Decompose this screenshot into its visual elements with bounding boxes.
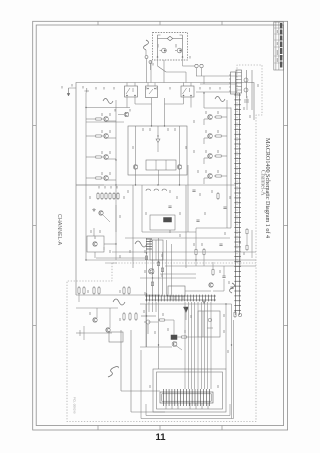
wire Q2 base feed: [86, 135, 94, 137]
wire Q4 collector: [108, 179, 116, 181]
transistor Q3: [104, 155, 109, 160]
dashed outline output device board: [237, 65, 262, 263]
board interconnect pin strip CN2 vertical: [234, 93, 241, 315]
wire K3 stubs: [147, 83, 149, 87]
capacitor C3: [222, 275, 225, 277]
label output board: [243, 107, 245, 110]
wires into CN2: [196, 75, 237, 77]
arrow stub: [75, 332, 77, 334]
wire Q6 leads: [223, 135, 227, 137]
wire bias rail: [86, 107, 130, 109]
wire input mesh: [140, 304, 232, 350]
resistor R1: [94, 118, 96, 120]
label marks lower right: [193, 243, 195, 246]
dark component U3: [171, 335, 177, 340]
svg-text:PCL-2082-B: PCL-2082-B: [73, 397, 77, 414]
ground G2: [203, 300, 205, 302]
relay driver box K1: [125, 86, 138, 97]
wire header stubs down: [166, 403, 208, 409]
wire Q4 base feed: [86, 177, 94, 179]
resistor R41: [180, 336, 182, 338]
transistor Q6: [208, 134, 213, 139]
wire Q3 collector: [108, 158, 116, 160]
main amplifier enclosure box: [76, 83, 254, 296]
wire mid bus 3: [125, 237, 230, 239]
transistor Q8: [208, 174, 213, 179]
dashed outline relay block: [153, 33, 188, 61]
relay RL1 frame right: [182, 35, 184, 57]
wire protection mesh: [76, 295, 118, 340]
wire Q15: [118, 114, 124, 116]
resistor R32: [212, 268, 214, 270]
transistor Q2: [104, 134, 109, 139]
bias cluster components: [109, 330, 165, 412]
resistor R3: [94, 156, 96, 158]
squiggle wave mark 1: [135, 241, 147, 247]
wire output feed across: [115, 205, 117, 260]
resistor R2: [94, 135, 96, 137]
squiggle wave mark 4: [230, 283, 235, 293]
transistor Q16 vas: [149, 269, 154, 274]
wire feedback: [141, 185, 143, 232]
junction dots vas: [146, 252, 147, 253]
resistor R8: [214, 175, 216, 177]
wire bias network: [93, 228, 95, 236]
feedback box: [150, 215, 175, 230]
wire stub left: [76, 332, 84, 334]
relay arm diamond: [167, 36, 172, 40]
capacitor C1: [196, 219, 199, 221]
capacitor C2: [219, 243, 222, 245]
wire left bank bottom: [76, 184, 104, 186]
label marks bottom: [149, 385, 151, 388]
wire VAS top: [96, 257, 148, 259]
wire under input box: [158, 170, 160, 185]
wire Q1 collector: [108, 120, 116, 122]
label Q1: [101, 113, 103, 116]
bias network boxes: [87, 236, 104, 252]
wire top rail: [85, 93, 87, 261]
relay contact B: [177, 48, 182, 53]
inductor L2: [103, 99, 113, 104]
wire speaker terminals down: [146, 59, 148, 67]
wire relay contacts to box: [157, 57, 159, 66]
transistor Q10 ltp right: [177, 165, 181, 169]
lower mirror box left edge: [132, 185, 134, 268]
VAS dark stack: [146, 239, 152, 249]
diode D1 center: [156, 139, 160, 143]
diode D2 dark: [184, 307, 189, 313]
capacitor C5: [168, 205, 171, 207]
label Q2: [101, 130, 103, 133]
label marks protection: [87, 290, 89, 293]
resistor R40: [158, 319, 160, 321]
squiggle wave mark 3: [108, 366, 118, 377]
input terminal arrow: [68, 88, 70, 95]
protection resistors D: [123, 312, 125, 314]
wire right bank top: [203, 93, 205, 108]
title block revision text: [280, 23, 282, 68]
transistor Q4: [104, 176, 109, 181]
wire right side verticals: [225, 304, 227, 369]
wire ltp to bus: [135, 169, 137, 185]
left bank vertical rail: [115, 100, 117, 205]
right bank rail: [226, 100, 228, 228]
wire lower right mesh: [165, 246, 256, 291]
label Q6: [205, 130, 207, 133]
label input terminal: [61, 86, 63, 89]
transistor Q9 ltp left: [133, 165, 137, 169]
input network cluster: [141, 316, 156, 334]
VAS dense chain: [145, 238, 163, 302]
label input stage: [142, 128, 144, 131]
routing rect B: [157, 372, 223, 409]
pin header J2 outer: [160, 392, 213, 403]
inductor L3: [215, 97, 225, 102]
box internals: [203, 311, 213, 337]
relay driver box K3 middle: [146, 86, 158, 98]
board interconnect pin strip CN1 horizontal: [145, 295, 216, 302]
svg-text:11: 11: [155, 432, 166, 443]
page border inner frame: [36, 25, 283, 426]
resistor R5: [214, 116, 216, 118]
label marks under top rail: [95, 87, 97, 90]
transistor Q15: [124, 112, 128, 116]
label Q8: [205, 170, 207, 173]
IC U2 box: [168, 286, 185, 296]
component box lower right: [198, 311, 220, 337]
resistor bank R20-R25: [97, 192, 99, 194]
border zone tick marks: [33, 21, 288, 430]
label marks mid band: [127, 190, 129, 193]
squiggle wave mark 2: [113, 299, 125, 305]
protection transistors: [93, 318, 97, 322]
wire Q5 leads: [223, 116, 227, 118]
wire ltp tails: [135, 126, 137, 165]
wire mid bus 2: [86, 259, 256, 261]
label Q5: [205, 111, 207, 114]
capacitor C6: [192, 189, 195, 191]
wire exit bottom 2: [141, 418, 234, 420]
terminal speaker -: [149, 61, 152, 64]
wire Q3 base feed: [86, 156, 94, 158]
terminal speaker +: [145, 56, 148, 59]
resistor R4: [94, 177, 96, 179]
label Q3: [101, 151, 103, 154]
wire Q2 collector: [108, 137, 116, 139]
driver pair box: [146, 160, 176, 170]
wire output terminals: [196, 68, 198, 76]
label Q4: [101, 172, 103, 175]
label Q14: [90, 230, 92, 233]
dark component U1: [164, 218, 172, 223]
wire vas drop left: [146, 302, 148, 347]
wire relay box leads: [150, 60, 152, 83]
relay crossbar: [158, 38, 168, 40]
input stage box: [128, 126, 187, 175]
VAS labels: [144, 250, 146, 253]
label Q15: [114, 109, 116, 112]
wire exit bottom 1: [146, 415, 230, 417]
resistor R26: [217, 192, 219, 194]
resistor R7: [214, 155, 216, 157]
wire right bank bottom: [196, 227, 227, 229]
terminal output O2: [200, 64, 203, 67]
relay contact A: [162, 48, 167, 53]
wire mid bus 1: [76, 184, 236, 186]
resistor R31: [203, 248, 205, 250]
output connector J1: [231, 72, 236, 94]
transistor Q12: [209, 283, 213, 287]
resistor R42: [234, 311, 236, 312]
capacitor C4: [230, 286, 233, 288]
resistor row RN1: [146, 189, 151, 191]
protection resistor pair B: [93, 286, 95, 288]
title block revision table: [274, 22, 284, 70]
emitter resistors output: [246, 228, 248, 229]
wire mid bus 4: [160, 273, 196, 275]
output stage cluster: [244, 70, 252, 110]
routing rect A: [153, 369, 226, 412]
wire Q1 base feed: [86, 118, 94, 120]
svg-text:Channel-A: Channel-A: [260, 170, 266, 196]
label Q7: [205, 150, 207, 153]
wire Q7 leads: [223, 155, 227, 157]
label marks mid-left: [89, 196, 91, 199]
wire left vertical rail: [76, 294, 160, 296]
component circle right: [238, 313, 241, 316]
wire lower right extra: [112, 251, 256, 253]
transistor Q5: [208, 115, 213, 120]
lower mirror box right edge: [185, 185, 187, 268]
wire feedback verticals: [166, 240, 168, 296]
wire mid bus 5: [140, 277, 196, 279]
wire output rail: [246, 96, 248, 110]
supply arrow node +V: [85, 90, 90, 92]
wire top bus segment: [158, 66, 167, 72]
transistor Q13: [172, 342, 177, 347]
relay driver box K2: [181, 86, 194, 97]
wire right lower vertical: [195, 228, 197, 248]
diagonal wire Q11: [103, 215, 110, 222]
protection resistor pair C: [123, 286, 125, 288]
label marks relay area: [157, 44, 159, 48]
transistor Q14: [93, 242, 97, 246]
wire Q8 leads: [223, 175, 227, 177]
protection resistor pair A: [78, 286, 80, 288]
inductor L1 speaker feed: [144, 40, 149, 50]
capacitor C7: [223, 206, 226, 208]
wire vas drop right: [158, 302, 160, 369]
svg-text:CHANNEL-A: CHANNEL-A: [56, 214, 62, 246]
transistor Q7: [208, 154, 213, 159]
junction dots buses: [115, 184, 116, 185]
label marks right bank gap: [193, 120, 195, 123]
VAS box: [150, 240, 163, 260]
transistor Q1: [104, 117, 109, 122]
terminal output O1: [195, 64, 198, 67]
label marks resistor bank: [98, 186, 100, 189]
dashed jog wire: [105, 262, 117, 264]
wire bundle to header: [146, 302, 211, 389]
page border outer frame: [33, 21, 288, 430]
pin header J2 pins: [163, 389, 209, 406]
label marks right cluster: [169, 230, 171, 233]
pin header J2 inner: [162, 394, 211, 401]
ground G1: [93, 208, 95, 210]
resistor R30: [195, 248, 197, 250]
relay RL1 frame left: [157, 35, 159, 57]
output connector J1b: [236, 70, 242, 93]
label marks input: [143, 310, 145, 313]
resistor R6: [214, 135, 216, 137]
wire center divider: [157, 126, 159, 139]
dashed outline main board PCL-2082-B: [67, 263, 256, 422]
transistor Q11: [99, 211, 103, 215]
